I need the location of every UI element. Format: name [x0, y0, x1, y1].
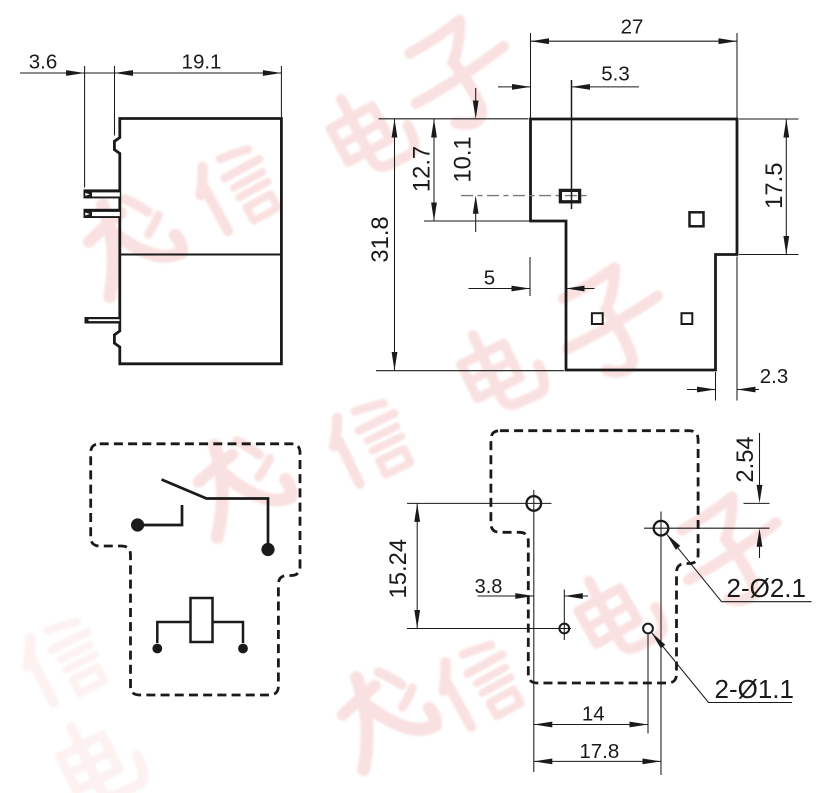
watermark faint fragments bottom-left — [16, 613, 149, 793]
dimension 15.24 — [416, 503, 418, 628]
coil rectangle — [191, 598, 213, 642]
armature / moving contact — [162, 480, 269, 545]
leader 2-Ø1.1 — [651, 632, 794, 704]
pin row centreline — [461, 195, 591, 197]
svg-text:12.7: 12.7 — [409, 146, 436, 192]
dimension 12.7 — [433, 119, 435, 221]
dimension 31.8 — [394, 119, 396, 371]
coil right terminal dot — [238, 644, 248, 654]
svg-text:17.8: 17.8 — [579, 740, 619, 763]
dimension 10.1 (outside arrows) — [475, 88, 477, 232]
coil left terminal dot — [152, 644, 162, 654]
coil right lead — [213, 622, 244, 643]
svg-text:17.5: 17.5 — [761, 163, 788, 209]
svg-text:5: 5 — [484, 267, 495, 290]
coil left lead — [157, 622, 190, 643]
schematic dashed outline — [91, 444, 300, 695]
svg-text:2-Ø1.1: 2-Ø1.1 — [715, 674, 795, 704]
dimension 27 — [531, 33, 738, 118]
case seam line — [120, 254, 282, 256]
hole S1 — [559, 624, 569, 634]
dimension 2.54 — [759, 433, 761, 558]
leader 2-Ø2.1 — [666, 534, 811, 603]
coil flat pin — [560, 190, 579, 201]
fixed contact — [138, 505, 182, 525]
bottom square pin right — [682, 313, 693, 324]
pin 2 — [84, 209, 120, 218]
switch common node dot — [131, 518, 144, 531]
svg-text:3.6: 3.6 — [29, 51, 58, 74]
footprint outline — [531, 119, 738, 370]
NC square pin — [690, 212, 704, 226]
watermark band 2 — [180, 256, 680, 537]
svg-text:14: 14 — [582, 702, 605, 725]
NO terminal dot — [261, 543, 274, 556]
dimension 14 — [534, 724, 648, 726]
construction lines — [407, 490, 770, 775]
dimension 3.6 / 19.1 — [20, 66, 281, 188]
dimension 5 — [469, 257, 595, 296]
hole H2 (NC) — [654, 521, 669, 536]
watermark band 1 — [69, 8, 529, 297]
step edge extension line — [424, 220, 529, 222]
svg-text:2-Ø2.1: 2-Ø2.1 — [727, 573, 807, 603]
svg-text:5.3: 5.3 — [601, 63, 630, 86]
hole H1 (coil) — [527, 496, 542, 511]
pcb dashed outline — [491, 431, 698, 683]
svg-text:19.1: 19.1 — [182, 51, 222, 74]
svg-text:3.8: 3.8 — [475, 576, 503, 598]
dimension 5.3 — [498, 80, 639, 209]
watermark band 3 — [323, 484, 801, 769]
relay body outline — [114, 119, 281, 364]
dimension 17.5 — [739, 119, 799, 255]
svg-text:27: 27 — [621, 16, 644, 39]
svg-text:2.54: 2.54 — [732, 436, 759, 482]
bottom edge extension line — [376, 370, 564, 372]
pin 1 — [84, 189, 120, 198]
svg-text:31.8: 31.8 — [367, 216, 394, 262]
pin 3 — [85, 317, 120, 324]
hole S2 — [643, 624, 653, 634]
svg-text:10.1: 10.1 — [450, 136, 477, 182]
top edge extension line — [379, 118, 529, 120]
bottom square pin left — [592, 313, 603, 324]
dimension 2.3 — [687, 257, 759, 401]
dimension 3.8 — [478, 595, 589, 597]
dimension 17.8 — [534, 760, 661, 762]
svg-text:2.3: 2.3 — [760, 365, 789, 388]
svg-text:15.24: 15.24 — [385, 539, 412, 599]
